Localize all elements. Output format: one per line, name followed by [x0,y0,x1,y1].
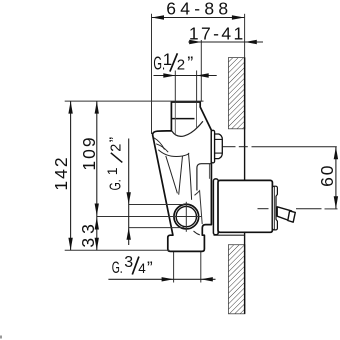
valve body outline [153,102,212,251]
side port hex nut [215,134,223,159]
body shoulder curve [172,121,203,136]
outlet circle inner [176,206,196,226]
dimension G3/4 bottom [108,254,215,281]
extension line top reference [65,100,204,102]
svg-text:”: ” [107,137,124,142]
side port flange [211,130,214,163]
fitting bottom edge [171,118,194,120]
body internal V line 1 [166,156,178,194]
dimension 17-41 [188,24,263,102]
cartridge flange [213,179,218,235]
dimension 142 [51,101,73,250]
centerline port axis [222,146,235,148]
cartridge cylinder [218,180,272,232]
dimension G1/2 left [104,137,131,245]
wall lower hatched section [228,245,245,314]
top pipe G1/2 stub [175,71,196,103]
body boss corner [197,164,212,191]
body cast curve left [154,138,165,150]
body internal line 3 [189,153,192,200]
svg-text:60: 60 [317,163,337,186]
svg-text:64-88: 64-88 [166,0,228,19]
dimension 64-88 [152,0,245,134]
page edge mark bottom left [0,336,2,339]
flange seat line in wall [214,234,245,236]
svg-text:1: 1 [104,167,120,175]
svg-text:109: 109 [79,135,99,170]
svg-text:4: 4 [138,261,146,276]
extension line outlet top tangent [129,204,184,206]
dimension 60 [317,147,338,209]
pipe thread lines in fitting [174,103,176,135]
bottom pipe G3/4 stub [174,252,201,283]
handle lever arm [277,207,291,221]
svg-text:”: ” [147,258,153,277]
lever axis centerline [258,208,269,210]
svg-text:2: 2 [108,144,124,152]
svg-text:1: 1 [163,50,172,69]
svg-text:2: 2 [177,57,185,74]
body edge double line below nut [208,164,210,179]
wall face line [244,14,246,314]
dimension G1/2 top [153,50,216,78]
dimension 33 [78,217,99,250]
body internal V line 2 [179,156,183,195]
svg-text:142: 142 [51,155,71,190]
svg-text:G.: G. [112,258,123,277]
svg-text:”: ” [187,53,193,73]
extension line bottom reference [65,249,170,251]
extension line outlet bottom tangent [129,227,185,229]
cartridge end stack [272,186,277,230]
handle lever tip [288,211,296,222]
wall upper hatched section [228,58,245,129]
outlet crosshair vertical [185,202,187,232]
nut facet lines [215,138,223,140]
svg-text:33: 33 [78,220,98,247]
circle to block arc [194,231,200,235]
dimension 109 [79,101,99,250]
svg-text:17-41: 17-41 [189,24,243,44]
boss edge right of circle [195,191,203,224]
extension line outlet center [97,216,202,218]
outlet circle outer [174,204,199,229]
body cast wavy curve 2 [156,144,168,152]
svg-text:G.: G. [107,179,124,190]
svg-text:3: 3 [124,254,133,271]
body cast wavy curve [158,150,189,157]
